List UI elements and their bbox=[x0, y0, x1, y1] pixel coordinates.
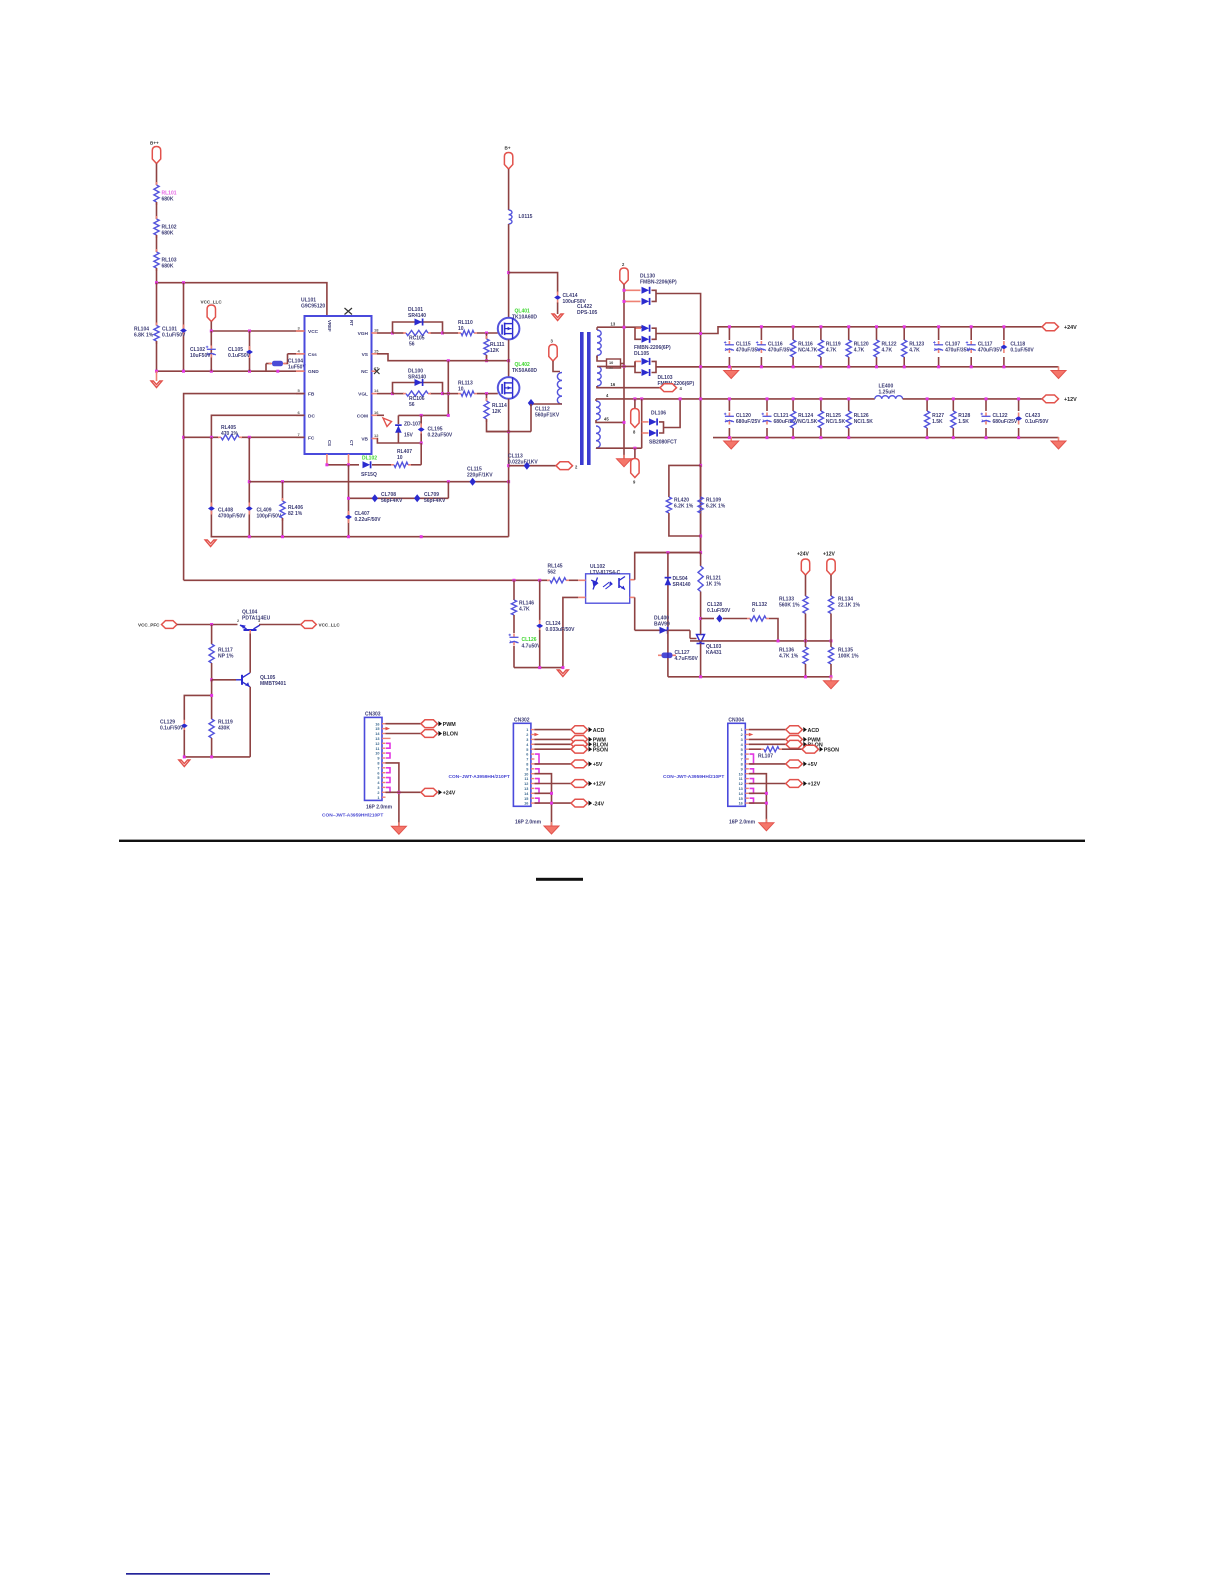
node 12ret R128 bbox=[952, 436, 955, 439]
svg-text:VB: VB bbox=[361, 437, 368, 443]
wire DL130 k bbox=[652, 290, 657, 301]
node 24bus CL107 bbox=[937, 325, 940, 328]
wire 24V col RL116 bot bbox=[792, 357, 794, 367]
node vb 421 bbox=[420, 442, 423, 445]
connector CN304 bbox=[728, 723, 749, 806]
label CN302 part bbox=[449, 774, 510, 780]
diode DL130b bbox=[642, 298, 650, 305]
diode DL106a bbox=[649, 418, 657, 425]
wire RL104 to gnd rail bbox=[156, 341, 158, 371]
svg-text:SF15Q: SF15Q bbox=[361, 472, 377, 478]
wire w4 bot bbox=[596, 447, 642, 449]
node NC X mark right bbox=[374, 369, 380, 375]
svg-text:CN303: CN303 bbox=[365, 711, 381, 717]
port -24V bbox=[571, 799, 604, 807]
svg-text:NC/1.5K: NC/1.5K bbox=[798, 419, 818, 425]
inductor LE400 bbox=[875, 384, 903, 399]
wire loop base l bbox=[393, 332, 405, 334]
resistor RL107 bbox=[758, 747, 782, 760]
wire FC row left bbox=[184, 436, 219, 438]
node divider junction bbox=[155, 281, 158, 284]
wire 498 row bbox=[349, 497, 449, 499]
port ACD bbox=[571, 726, 604, 734]
node 282-481 bbox=[281, 480, 284, 483]
wire UL101 right pin stub bbox=[372, 438, 378, 440]
node snub tap bbox=[507, 271, 510, 274]
svg-text:VGL: VGL bbox=[358, 392, 368, 398]
wire 24V return rail bbox=[656, 366, 1059, 368]
node vcc sw bbox=[210, 623, 213, 626]
wire cn303 gnd bbox=[386, 763, 399, 826]
wire RL407 right bbox=[411, 464, 421, 466]
node DC-FC bbox=[210, 436, 213, 439]
node 12ret CL122 bbox=[985, 436, 988, 439]
node 24ret CL107 bbox=[937, 365, 940, 368]
node x448 VGL cross bbox=[447, 392, 450, 395]
ground COM return arrow bbox=[383, 418, 392, 427]
svg-text:PSON: PSON bbox=[593, 747, 608, 753]
svg-text:CON–JWT-A3959HH/210PT: CON–JWT-A3959HH/210PT bbox=[663, 774, 724, 780]
node 24bus CL117 bbox=[970, 325, 973, 328]
node zd top r bbox=[447, 414, 450, 417]
transistor QL105 bbox=[236, 673, 286, 687]
port port bbox=[660, 384, 677, 392]
capacitor CL116 bbox=[756, 341, 793, 354]
wire rl136 top bbox=[805, 641, 807, 647]
ground GND CN302 bbox=[544, 822, 559, 834]
svg-text:1.25uH: 1.25uH bbox=[879, 390, 896, 396]
svg-text:2: 2 bbox=[377, 791, 379, 795]
svg-text:0.1uF/50V: 0.1uF/50V bbox=[160, 726, 184, 732]
svg-text:7: 7 bbox=[377, 766, 379, 770]
svg-text:+5V: +5V bbox=[593, 762, 603, 768]
wire cl127 col bbox=[667, 630, 669, 677]
resistor RL406 bbox=[280, 498, 303, 521]
wire x211 col bbox=[210, 437, 212, 536]
node 348-498 bbox=[347, 497, 350, 500]
node fbg2 bbox=[561, 666, 564, 669]
wire fb bottom rail bbox=[668, 676, 831, 678]
ground GND 12V left bbox=[724, 437, 739, 449]
node 24ret CL116 bbox=[760, 365, 763, 368]
inductor secondary winding 1 bbox=[597, 327, 601, 358]
wire cl124 bot bbox=[539, 630, 541, 668]
resistor RL116 bbox=[791, 340, 818, 357]
svg-text:+5V: +5V bbox=[808, 762, 818, 768]
svg-text:15: 15 bbox=[739, 797, 743, 801]
label +24V bbox=[1064, 325, 1077, 331]
svg-text:VGH: VGH bbox=[358, 331, 369, 337]
wire 421 drop bbox=[420, 443, 422, 465]
wire cl129 branch bbox=[184, 695, 211, 720]
wire SF15Q to RL407 bbox=[372, 464, 391, 466]
node cn303 link bbox=[386, 787, 390, 792]
wire CL195 col bbox=[420, 415, 422, 425]
resistor RC106 bbox=[403, 391, 431, 408]
wire DL130 a1 bbox=[624, 289, 641, 291]
node bp2 bbox=[347, 463, 350, 466]
wire DL100 loop bbox=[393, 383, 443, 394]
wire 24V col RL120 bot bbox=[848, 357, 850, 367]
svg-text:9: 9 bbox=[526, 767, 528, 771]
svg-text:6: 6 bbox=[526, 753, 528, 757]
wire rl119 bot bbox=[211, 738, 213, 757]
separator line bbox=[119, 840, 1085, 842]
capacitor CL407 bbox=[345, 511, 381, 523]
node cn304 link910 bbox=[750, 769, 754, 774]
node port8 j bbox=[633, 397, 636, 400]
node llg2 bbox=[210, 755, 213, 758]
svg-text:13: 13 bbox=[611, 321, 616, 326]
wire cl126 bot bbox=[513, 646, 515, 668]
wire top rail to UL101 pin bbox=[157, 283, 327, 316]
svg-text:16P 2.0mm: 16P 2.0mm bbox=[729, 820, 756, 826]
node VGL loop right bbox=[441, 392, 444, 395]
svg-text:10: 10 bbox=[397, 455, 403, 461]
capacitor CL709 bbox=[414, 492, 446, 504]
node 640 b bbox=[804, 639, 807, 642]
resistor RL102 bbox=[154, 216, 177, 238]
node cn304 p2 stub bbox=[749, 733, 754, 737]
svg-text:11: 11 bbox=[524, 777, 528, 781]
wire x249 col bbox=[248, 437, 250, 536]
wire ZD col bot bbox=[397, 433, 399, 444]
wire 24fb down bbox=[805, 575, 807, 596]
node cn304 link1112 bbox=[750, 779, 754, 784]
wire FC row right bbox=[241, 436, 305, 438]
wire DL103 a1 bbox=[635, 360, 641, 362]
port +5V bbox=[786, 760, 818, 768]
wire cn303 blon bbox=[386, 733, 421, 735]
svg-text:12K: 12K bbox=[490, 348, 500, 354]
resistor RL111 bbox=[484, 336, 505, 358]
svg-text:56pF4KV: 56pF4KV bbox=[381, 498, 403, 504]
wire rl134 bot bbox=[830, 614, 832, 641]
node 12ret RL126 bbox=[847, 436, 850, 439]
svg-text:L0115: L0115 bbox=[519, 214, 533, 220]
ground GND regulation bbox=[824, 677, 839, 689]
ground GND feedback bbox=[557, 670, 568, 677]
svg-text:11: 11 bbox=[375, 747, 379, 751]
port +24V bbox=[421, 788, 456, 796]
svg-text:5: 5 bbox=[526, 748, 528, 752]
svg-text:4.7K: 4.7K bbox=[826, 348, 837, 354]
port VCC_LLC bbox=[207, 305, 215, 322]
wire cn304 5v bbox=[749, 763, 786, 765]
svg-text:14: 14 bbox=[374, 388, 379, 393]
wire ql103 cath bbox=[700, 614, 702, 635]
svg-text:12: 12 bbox=[374, 433, 379, 438]
node 24ret CL118 bbox=[1002, 365, 1005, 368]
svg-text:1: 1 bbox=[741, 728, 743, 732]
node cn304 link68 bbox=[750, 754, 754, 764]
svg-text:0: 0 bbox=[752, 608, 755, 614]
svg-text:0.022uF/1KV: 0.022uF/1KV bbox=[508, 460, 538, 466]
node 24bus CL116 bbox=[760, 325, 763, 328]
node cn303 cross bbox=[397, 791, 400, 794]
label DL130 bbox=[640, 274, 677, 286]
label CL126 bbox=[522, 637, 542, 650]
svg-text:NC: NC bbox=[361, 369, 368, 375]
node pin16 label bbox=[611, 382, 616, 387]
wire box to rail bbox=[621, 363, 625, 365]
wire UL101 right pin stub bbox=[372, 332, 378, 334]
node pg4 bbox=[420, 535, 423, 538]
svg-text:560pF1KV: 560pF1KV bbox=[535, 413, 560, 419]
node dl130 a1 bbox=[623, 289, 626, 292]
svg-text:NC/1.5K: NC/1.5K bbox=[854, 419, 874, 425]
wire rl146 col bbox=[513, 580, 515, 600]
wire DC bbox=[211, 415, 304, 437]
svg-text:DL105: DL105 bbox=[634, 351, 649, 357]
wire cl128-rl132 bbox=[723, 618, 747, 620]
node gate QL401 bbox=[485, 332, 488, 335]
wire 12V return bbox=[713, 437, 1059, 439]
wire 24V col CL115 top bbox=[728, 327, 730, 340]
node cn302 link1516 bbox=[535, 798, 539, 803]
svg-text:DL106: DL106 bbox=[651, 411, 666, 417]
wire prim gnd rail bbox=[211, 536, 509, 538]
node llg1 bbox=[183, 755, 186, 758]
wire VB row bbox=[377, 439, 421, 444]
port PWM bbox=[571, 736, 606, 744]
wire ZD col bbox=[397, 415, 399, 424]
wire 24V col RL119 top bbox=[820, 327, 822, 340]
resistor RL124 bbox=[791, 411, 818, 428]
svg-text:15: 15 bbox=[374, 348, 379, 353]
wire cn303 pwm bbox=[386, 723, 421, 725]
wire 12fb down bbox=[830, 575, 832, 596]
svg-text:+24V: +24V bbox=[1064, 325, 1077, 331]
node cn303 link bbox=[386, 778, 390, 783]
node w2-rail bbox=[623, 365, 626, 368]
wire RL111 top bbox=[486, 333, 488, 339]
wire CL414 gnd bbox=[557, 303, 559, 315]
svg-text:+24V: +24V bbox=[797, 552, 809, 558]
port port bbox=[556, 462, 573, 470]
wire UL101 right pin stub bbox=[372, 353, 378, 355]
svg-text:470uF/35V: 470uF/35V bbox=[945, 348, 970, 354]
svg-text:VCC_LLC: VCC_LLC bbox=[201, 300, 223, 305]
node 24bus RL123 bbox=[903, 325, 906, 328]
wire cn304 pson b bbox=[782, 748, 802, 750]
svg-text:PWM: PWM bbox=[443, 722, 457, 728]
wire DL105 out bbox=[656, 327, 729, 334]
svg-text:SR4140: SR4140 bbox=[408, 313, 426, 319]
wire 24V col CL117 bot bbox=[970, 357, 972, 367]
wire CL104 left bbox=[266, 363, 271, 365]
node dl130 a2 bbox=[623, 300, 626, 303]
node pin45 label bbox=[604, 416, 609, 421]
node cn303 p15 stub bbox=[386, 727, 391, 731]
wire QL401 S to VS bbox=[508, 339, 510, 377]
diode DL105a bbox=[642, 325, 650, 332]
wire RL420 bot bbox=[669, 513, 701, 536]
node cn303 link bbox=[386, 743, 390, 748]
port BLON bbox=[421, 730, 458, 738]
node 12bus R127 bbox=[926, 397, 929, 400]
svg-text:DC: DC bbox=[308, 413, 315, 419]
capacitor CL113 bbox=[508, 454, 538, 470]
wire 24V col RL122 top bbox=[876, 327, 878, 340]
port PWM bbox=[421, 720, 456, 728]
svg-text:16P 2.0mm: 16P 2.0mm bbox=[515, 820, 542, 826]
resistor RL123 bbox=[902, 340, 925, 357]
wire w1 bot to box bbox=[597, 356, 607, 362]
wire L0115 down bbox=[508, 224, 510, 318]
resistor RL125 bbox=[818, 411, 845, 428]
wire 431 rail bbox=[487, 431, 532, 433]
wire DL103 a0 bbox=[624, 361, 635, 366]
svg-text:B+: B+ bbox=[505, 146, 511, 151]
node x700 536 bbox=[699, 535, 702, 538]
svg-text:680K: 680K bbox=[162, 264, 174, 270]
node 12bus CL423 bbox=[1017, 397, 1020, 400]
label DL103 bbox=[658, 375, 695, 387]
svg-text:16: 16 bbox=[611, 382, 616, 387]
svg-text:2: 2 bbox=[741, 733, 743, 737]
wire 12V col CL121 bot bbox=[766, 428, 768, 438]
wire rl146 col2 bbox=[513, 615, 515, 633]
svg-text:9: 9 bbox=[741, 767, 743, 771]
wire 552 rail bbox=[635, 552, 701, 554]
label CN304 type bbox=[729, 820, 756, 826]
capacitor CL117 bbox=[966, 341, 1003, 354]
capacitor CL124 bbox=[536, 620, 575, 633]
svg-text:16: 16 bbox=[375, 722, 379, 726]
wire 640 rail bbox=[690, 640, 831, 642]
node 12bus CL120 bbox=[728, 397, 731, 400]
port BLON bbox=[786, 740, 823, 748]
label CL422 bbox=[577, 304, 598, 316]
ground GND CN304 bbox=[759, 819, 774, 831]
svg-text:Css: Css bbox=[308, 352, 317, 358]
node fbb2 bbox=[804, 675, 807, 678]
wire divider to RL104 bbox=[156, 283, 158, 326]
op-amp U1 controller UL101 bbox=[298, 298, 380, 455]
svg-text:0.22uF50V: 0.22uF50V bbox=[428, 433, 453, 439]
wire base row bbox=[212, 679, 236, 681]
wire COM stub bbox=[377, 414, 384, 416]
wire 12V col RL125 bot bbox=[820, 428, 822, 438]
wire FB long bbox=[184, 579, 549, 581]
resistor RL101 bbox=[154, 182, 177, 205]
wire RL114 bot bbox=[487, 419, 509, 432]
node w1-rail bbox=[623, 326, 626, 329]
wire cn302 pson bbox=[534, 748, 571, 750]
resistor RL405 bbox=[218, 425, 242, 440]
label CN304 bbox=[728, 717, 744, 723]
wire UL101 left pin stub bbox=[296, 330, 305, 332]
wire x641 col bbox=[641, 399, 643, 448]
wire UL101 left pin stub bbox=[296, 393, 305, 395]
wire UL101 bottom pin1 bbox=[326, 454, 328, 465]
node 24ret CL117 bbox=[970, 365, 973, 368]
svg-text:2: 2 bbox=[526, 733, 528, 737]
node 249-481 bbox=[248, 480, 251, 483]
resistor RL122 bbox=[874, 340, 897, 357]
svg-text:220pF/1KV: 220pF/1KV bbox=[467, 473, 493, 479]
svg-text:MMBT9401: MMBT9401 bbox=[260, 681, 286, 687]
wire DL105 a2 bbox=[635, 327, 641, 339]
wire ZD loop top bbox=[398, 414, 448, 416]
wire RL102-RL103 bbox=[156, 235, 158, 252]
node x700 bus bbox=[699, 397, 702, 400]
svg-text:12: 12 bbox=[524, 782, 528, 786]
port +24V fb bbox=[801, 559, 809, 575]
node cn304 j14 bbox=[765, 792, 768, 795]
node 24ret RL120 bbox=[847, 365, 850, 368]
node zd top l bbox=[420, 414, 423, 417]
wire 24V col CL115 bot bbox=[728, 357, 730, 367]
wire ql104 base down bbox=[249, 634, 251, 673]
wire 24V col RL119 bot bbox=[820, 357, 822, 367]
wire 24V col CL117 top bbox=[970, 327, 972, 340]
svg-text:+12V: +12V bbox=[1064, 397, 1077, 403]
wire VS drop x448 bbox=[447, 361, 449, 416]
svg-text:15: 15 bbox=[375, 727, 379, 731]
svg-text:ACD: ACD bbox=[593, 728, 605, 734]
wire RL121 top bbox=[700, 553, 702, 566]
port port bbox=[162, 621, 178, 629]
wire snub branch bbox=[509, 273, 558, 293]
svg-text:VCC: VCC bbox=[308, 329, 319, 335]
capacitor CL408 bbox=[208, 503, 246, 520]
wire 24V col CL107 bot bbox=[938, 357, 940, 367]
node w3 x641 bbox=[640, 397, 643, 400]
node 24ret RL119 bbox=[819, 365, 822, 368]
node dl105-x700 bbox=[699, 332, 702, 335]
wire port9 stub bbox=[634, 448, 636, 458]
svg-text:0.1uF/50V: 0.1uF/50V bbox=[707, 608, 731, 614]
node gnd rail j1 bbox=[155, 370, 158, 373]
node 12bus RL125 bbox=[819, 397, 822, 400]
wire rl135 bot bbox=[830, 664, 832, 677]
svg-text:8: 8 bbox=[741, 763, 743, 767]
svg-text:ZD-107: ZD-107 bbox=[404, 422, 421, 428]
svg-text:4.7u50V: 4.7u50V bbox=[522, 644, 542, 650]
wire 24V col RL123 bot bbox=[903, 357, 905, 367]
ground GND 24V right bbox=[1051, 367, 1066, 379]
port B+ bbox=[504, 153, 512, 170]
wire opto p4 up bbox=[635, 553, 701, 580]
wire cn304 acd bbox=[749, 729, 786, 731]
wire RL406 col bot bbox=[282, 518, 284, 537]
node 24ret RL122 bbox=[875, 365, 878, 368]
wire CL104 gnd bbox=[265, 364, 267, 372]
svg-text:0.1uF/50V: 0.1uF/50V bbox=[162, 333, 186, 339]
node 12ret CL121 bbox=[766, 436, 769, 439]
node gnd rail j4 bbox=[248, 370, 251, 373]
port +12V bbox=[571, 780, 606, 788]
wire UL101 bottom pin2 bbox=[348, 454, 350, 465]
diode DL400 bbox=[654, 615, 670, 634]
svg-text:1: 1 bbox=[526, 728, 528, 732]
capacitor CL128 bbox=[707, 602, 731, 623]
node 12bus RL126 bbox=[847, 397, 850, 400]
wire 12V col R127 bot bbox=[926, 428, 928, 438]
wire opto p3 down bbox=[634, 597, 636, 630]
node cn304 j16 bbox=[765, 802, 768, 805]
svg-text:16: 16 bbox=[374, 410, 379, 415]
label CN302 bbox=[514, 717, 530, 723]
wire loop base r bbox=[430, 332, 443, 334]
resistor RL126 bbox=[846, 411, 873, 428]
wire rl121 col bbox=[700, 592, 702, 614]
wire RL420 loop bbox=[669, 465, 701, 497]
svg-text:PSON: PSON bbox=[824, 747, 839, 753]
wire 12V col RL126 bot bbox=[848, 428, 850, 438]
